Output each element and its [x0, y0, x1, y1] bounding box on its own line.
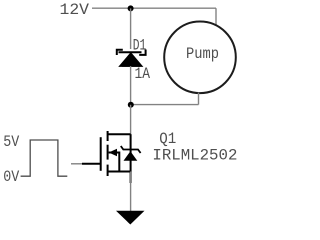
channel segment body	[107, 145, 109, 160]
wire pump bottom drop	[198, 93, 200, 105]
wire pump top drop	[215, 8, 217, 25]
wire 12V rail horizontal	[92, 7, 216, 9]
body tap line	[109, 153, 120, 172]
svg-text:1A: 1A	[135, 65, 151, 83]
diode D1 schottky symbol	[117, 50, 146, 67]
input pulse waveform	[21, 140, 68, 176]
channel segment drain	[107, 131, 109, 141]
wire D1 cathode stub	[130, 8, 132, 49]
arrow N-channel pointing left	[109, 149, 117, 157]
wire gate lead	[71, 163, 84, 165]
junction dot at 12V rail / D1 cathode	[128, 5, 134, 11]
channel segment source	[107, 165, 109, 176]
transistor Q1 MOSFET	[82, 131, 131, 183]
gate pin	[82, 163, 101, 165]
svg-text:0V: 0V	[3, 168, 19, 186]
body diode bar with bent ends	[121, 146, 141, 153]
ground arrow	[116, 211, 145, 225]
gate plate	[100, 137, 102, 171]
svg-text:IRLML2502: IRLML2502	[152, 146, 237, 164]
drain lead	[108, 133, 131, 135]
svg-text:Pump: Pump	[186, 45, 219, 63]
svg-text:5V: 5V	[3, 133, 19, 151]
source lead	[108, 171, 131, 173]
wire drain bus	[130, 105, 132, 135]
svg-text:Q1: Q1	[159, 130, 176, 148]
junction dot at D1 anode / drain node	[128, 102, 134, 108]
wire source to ground	[130, 172, 132, 212]
diode D1 triangle	[119, 53, 142, 67]
mosfet bus segment	[130, 134, 132, 183]
motor M1 Pump circle	[164, 22, 236, 94]
wire D1 anode to node	[130, 66, 132, 105]
svg-text:12V: 12V	[60, 1, 90, 19]
body diode triangle	[124, 151, 138, 161]
svg-text:D1: D1	[133, 37, 147, 55]
wire node horizontal to pump	[131, 104, 199, 106]
